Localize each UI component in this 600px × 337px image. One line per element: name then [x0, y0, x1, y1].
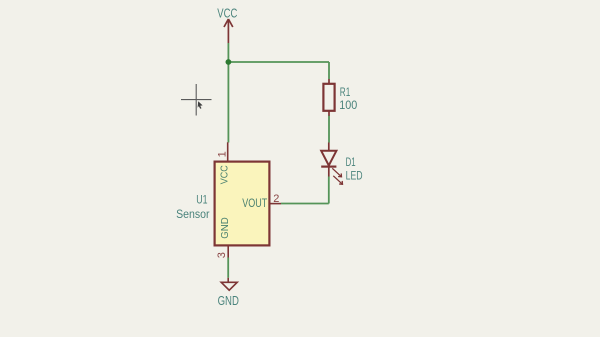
svg-text:U1: U1	[196, 192, 208, 206]
wire	[328, 177, 330, 204]
svg-text:Sensor: Sensor	[176, 207, 209, 221]
wire	[228, 61, 329, 63]
svg-text:VCC: VCC	[219, 165, 231, 184]
svg-text:LED: LED	[346, 169, 363, 183]
wire	[281, 203, 329, 205]
svg-text:R1: R1	[340, 85, 351, 99]
cursor crosshair	[181, 84, 212, 116]
resistor R1	[323, 79, 334, 116]
wire	[227, 258, 229, 278]
LED D1	[321, 143, 342, 185]
svg-text:2: 2	[273, 193, 279, 205]
svg-text:VOUT: VOUT	[242, 198, 267, 210]
junction	[226, 59, 232, 65]
wire	[227, 43, 229, 143]
pin 1 (VCC)	[227, 142, 229, 161]
svg-text:1: 1	[216, 151, 228, 157]
cursor pointer	[198, 101, 203, 109]
svg-text:GND: GND	[218, 294, 239, 308]
svg-text:D1: D1	[346, 155, 356, 169]
svg-text:100: 100	[339, 98, 357, 112]
svg-text:3: 3	[216, 252, 228, 258]
power VCC	[224, 19, 233, 43]
wire	[328, 116, 330, 143]
svg-text:VCC: VCC	[217, 6, 237, 20]
svg-text:GND: GND	[219, 217, 231, 239]
IC U1 body	[215, 162, 270, 246]
pin 2 (VOUT)	[269, 203, 281, 205]
wire	[328, 62, 330, 79]
ground symbol	[221, 278, 237, 290]
pin 3 (GND)	[227, 245, 229, 257]
